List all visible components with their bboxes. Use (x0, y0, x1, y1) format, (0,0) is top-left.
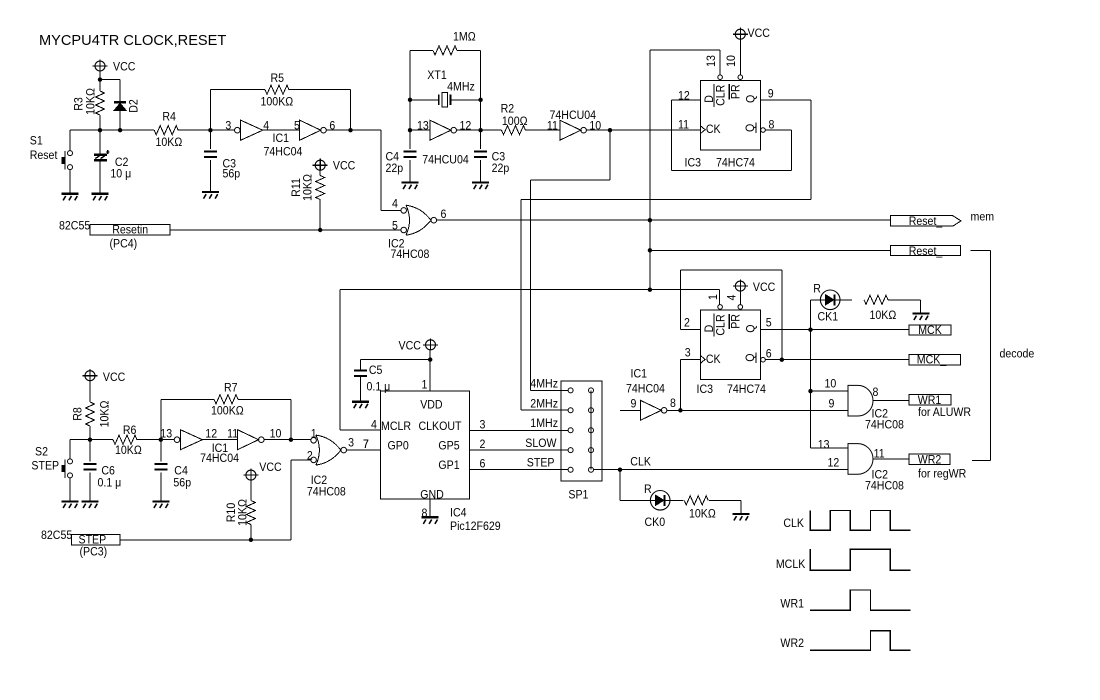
svg-text:Q: Q (745, 324, 758, 332)
svg-text:IC3: IC3 (697, 383, 714, 396)
svg-text:6: 6 (329, 120, 335, 133)
svg-text:VCC: VCC (333, 160, 355, 173)
svg-text:2: 2 (480, 438, 486, 451)
svg-text:74HC04: 74HC04 (264, 146, 304, 159)
svg-text:10KΩ: 10KΩ (302, 174, 315, 201)
svg-text:100KΩ: 100KΩ (211, 405, 244, 418)
svg-text:5: 5 (294, 120, 300, 133)
svg-text:VCC: VCC (753, 281, 775, 294)
svg-text:STEP: STEP (527, 457, 555, 470)
svg-text:12: 12 (828, 457, 840, 470)
svg-text:MCLR: MCLR (381, 420, 411, 433)
svg-text:D2: D2 (128, 99, 141, 113)
svg-text:PR: PR (730, 314, 743, 329)
svg-text:Reset_: Reset_ (909, 215, 943, 228)
svg-text:13: 13 (705, 55, 718, 67)
svg-text:GP0: GP0 (388, 440, 409, 453)
svg-text:S2: S2 (35, 446, 48, 459)
svg-text:SP1: SP1 (568, 489, 588, 502)
svg-text:Reset: Reset (30, 149, 58, 162)
svg-text:VDD: VDD (420, 399, 442, 412)
svg-text:VCC: VCC (259, 461, 281, 474)
svg-text:CK: CK (706, 123, 721, 136)
svg-text:10KΩ: 10KΩ (156, 137, 183, 150)
svg-text:0.1 μ: 0.1 μ (367, 381, 391, 394)
svg-text:VCC: VCC (399, 340, 421, 353)
svg-text:R4: R4 (162, 111, 176, 124)
svg-text:74HC08: 74HC08 (865, 419, 904, 432)
svg-text:74HC08: 74HC08 (865, 480, 904, 493)
svg-text:R: R (813, 283, 821, 296)
svg-text:mem: mem (971, 211, 995, 224)
svg-text:9: 9 (768, 88, 774, 101)
svg-text:(PC4): (PC4) (110, 238, 138, 251)
svg-text:C6: C6 (101, 465, 115, 478)
svg-text:10KΩ: 10KΩ (99, 400, 112, 427)
svg-text:MYCPU4TR CLOCK,RESET: MYCPU4TR CLOCK,RESET (39, 33, 226, 49)
svg-text:MCK: MCK (918, 324, 942, 337)
svg-text:2MHz: 2MHz (530, 398, 558, 411)
svg-text:STEP: STEP (79, 534, 107, 547)
svg-text:12: 12 (205, 428, 217, 441)
svg-text:WR2: WR2 (918, 454, 942, 467)
svg-text:2: 2 (684, 317, 690, 330)
svg-text:22p: 22p (492, 162, 510, 175)
svg-text:Q: Q (745, 95, 758, 103)
svg-text:10KΩ: 10KΩ (115, 445, 142, 458)
svg-text:VCC: VCC (103, 371, 125, 384)
svg-text:74HC08: 74HC08 (391, 249, 430, 262)
svg-text:10KΩ: 10KΩ (870, 309, 897, 322)
svg-text:IC1: IC1 (273, 133, 290, 146)
svg-text:8: 8 (873, 387, 879, 400)
svg-text:R: R (644, 483, 652, 496)
svg-text:PR: PR (730, 84, 743, 99)
svg-text:4: 4 (263, 120, 269, 133)
svg-text:11: 11 (227, 428, 238, 441)
svg-text:R5: R5 (271, 72, 285, 85)
svg-text:S1: S1 (30, 135, 43, 148)
svg-text:74HC08: 74HC08 (307, 486, 346, 499)
svg-text:10: 10 (825, 378, 837, 391)
svg-text:R7: R7 (224, 382, 238, 395)
svg-text:GP5: GP5 (438, 440, 459, 453)
svg-text:R3: R3 (73, 97, 86, 111)
svg-text:10KΩ: 10KΩ (689, 508, 716, 521)
svg-text:C5: C5 (369, 364, 383, 377)
svg-text:R8: R8 (72, 407, 85, 421)
svg-text:10: 10 (725, 55, 738, 67)
svg-text:7: 7 (363, 438, 369, 451)
svg-text:3: 3 (685, 347, 691, 360)
svg-text:1: 1 (707, 294, 720, 300)
svg-text:GND: GND (420, 489, 444, 502)
svg-text:Pic12F629: Pic12F629 (450, 520, 501, 533)
svg-text:22p: 22p (386, 162, 404, 175)
svg-text:100KΩ: 100KΩ (261, 96, 294, 109)
svg-text:CLKOUT: CLKOUT (419, 420, 462, 433)
svg-text:6: 6 (480, 458, 486, 471)
svg-text:WR1: WR1 (780, 598, 804, 611)
svg-text:GP1: GP1 (438, 460, 459, 473)
svg-text:10: 10 (270, 428, 282, 441)
svg-text:82C55: 82C55 (41, 529, 72, 542)
svg-text:2: 2 (307, 450, 313, 463)
svg-text:5: 5 (766, 317, 772, 330)
svg-text:R2: R2 (501, 103, 515, 116)
svg-text:decode: decode (1000, 348, 1035, 361)
svg-text:74HC74: 74HC74 (716, 157, 756, 170)
svg-text:9: 9 (631, 398, 637, 411)
svg-text:11: 11 (874, 448, 885, 461)
svg-text:WR2: WR2 (780, 637, 804, 650)
svg-text:CK0: CK0 (645, 516, 666, 529)
svg-text:Q: Q (744, 124, 757, 132)
svg-text:13: 13 (160, 428, 172, 441)
svg-text:MCK_: MCK_ (917, 354, 947, 367)
svg-text:3: 3 (348, 437, 354, 450)
svg-text:VCC: VCC (113, 61, 135, 74)
svg-text:4MHz: 4MHz (447, 81, 475, 94)
svg-text:1MΩ: 1MΩ (453, 31, 476, 44)
svg-text:100Ω: 100Ω (502, 115, 528, 128)
svg-text:10 μ: 10 μ (110, 168, 131, 181)
svg-text:10KΩ: 10KΩ (85, 88, 98, 115)
svg-text:1: 1 (422, 379, 428, 392)
svg-text:Reset_: Reset_ (909, 245, 943, 258)
svg-text:VCC: VCC (748, 27, 770, 40)
svg-text:74HC74: 74HC74 (727, 383, 767, 396)
svg-text:SLOW: SLOW (525, 437, 556, 450)
svg-text:6: 6 (766, 348, 772, 361)
svg-text:CK1: CK1 (818, 311, 839, 324)
svg-text:(PC3): (PC3) (80, 546, 108, 559)
svg-text:13: 13 (818, 439, 830, 452)
svg-text:IC1: IC1 (631, 368, 648, 381)
svg-text:74HC04: 74HC04 (200, 452, 240, 465)
svg-text:CLK: CLK (783, 517, 804, 530)
svg-text:XT1: XT1 (427, 69, 446, 82)
svg-text:4: 4 (726, 294, 739, 300)
svg-text:0.1 μ: 0.1 μ (98, 477, 122, 490)
svg-text:56p: 56p (223, 168, 241, 181)
svg-text:for ALUWR: for ALUWR (918, 407, 971, 420)
svg-text:Q: Q (744, 353, 757, 361)
svg-text:10KΩ: 10KΩ (237, 499, 250, 526)
svg-text:IC3: IC3 (685, 157, 702, 170)
svg-text:1MHz: 1MHz (530, 418, 558, 431)
svg-text:11: 11 (678, 119, 689, 132)
svg-text:MCLK: MCLK (776, 558, 806, 571)
svg-text:6: 6 (441, 208, 447, 221)
svg-text:82C55: 82C55 (59, 220, 90, 233)
svg-text:3: 3 (225, 120, 231, 133)
svg-text:CLK: CLK (630, 456, 651, 469)
svg-text:CLR: CLR (715, 85, 728, 106)
svg-text:STEP: STEP (31, 460, 59, 473)
svg-text:CLR: CLR (715, 314, 728, 335)
svg-text:8: 8 (422, 507, 428, 520)
svg-text:56p: 56p (173, 477, 191, 490)
svg-text:9: 9 (829, 398, 835, 411)
svg-text:WR1: WR1 (918, 394, 942, 407)
svg-text:4: 4 (392, 198, 398, 211)
svg-text:4MHz: 4MHz (530, 378, 558, 391)
svg-text:IC4: IC4 (450, 507, 467, 520)
svg-text:74HCU04: 74HCU04 (422, 154, 469, 167)
svg-text:for regWR: for regWR (918, 468, 966, 481)
svg-text:11: 11 (547, 120, 558, 133)
svg-text:CK: CK (706, 353, 721, 366)
svg-text:13: 13 (417, 120, 429, 133)
svg-text:4: 4 (371, 419, 377, 432)
svg-text:5: 5 (392, 220, 398, 233)
svg-text:8: 8 (670, 397, 676, 410)
svg-text:3: 3 (480, 419, 486, 432)
svg-text:74HC04: 74HC04 (626, 383, 666, 396)
svg-text:Resetin: Resetin (112, 224, 148, 237)
svg-text:R6: R6 (123, 425, 137, 438)
svg-text:C4: C4 (174, 465, 188, 478)
